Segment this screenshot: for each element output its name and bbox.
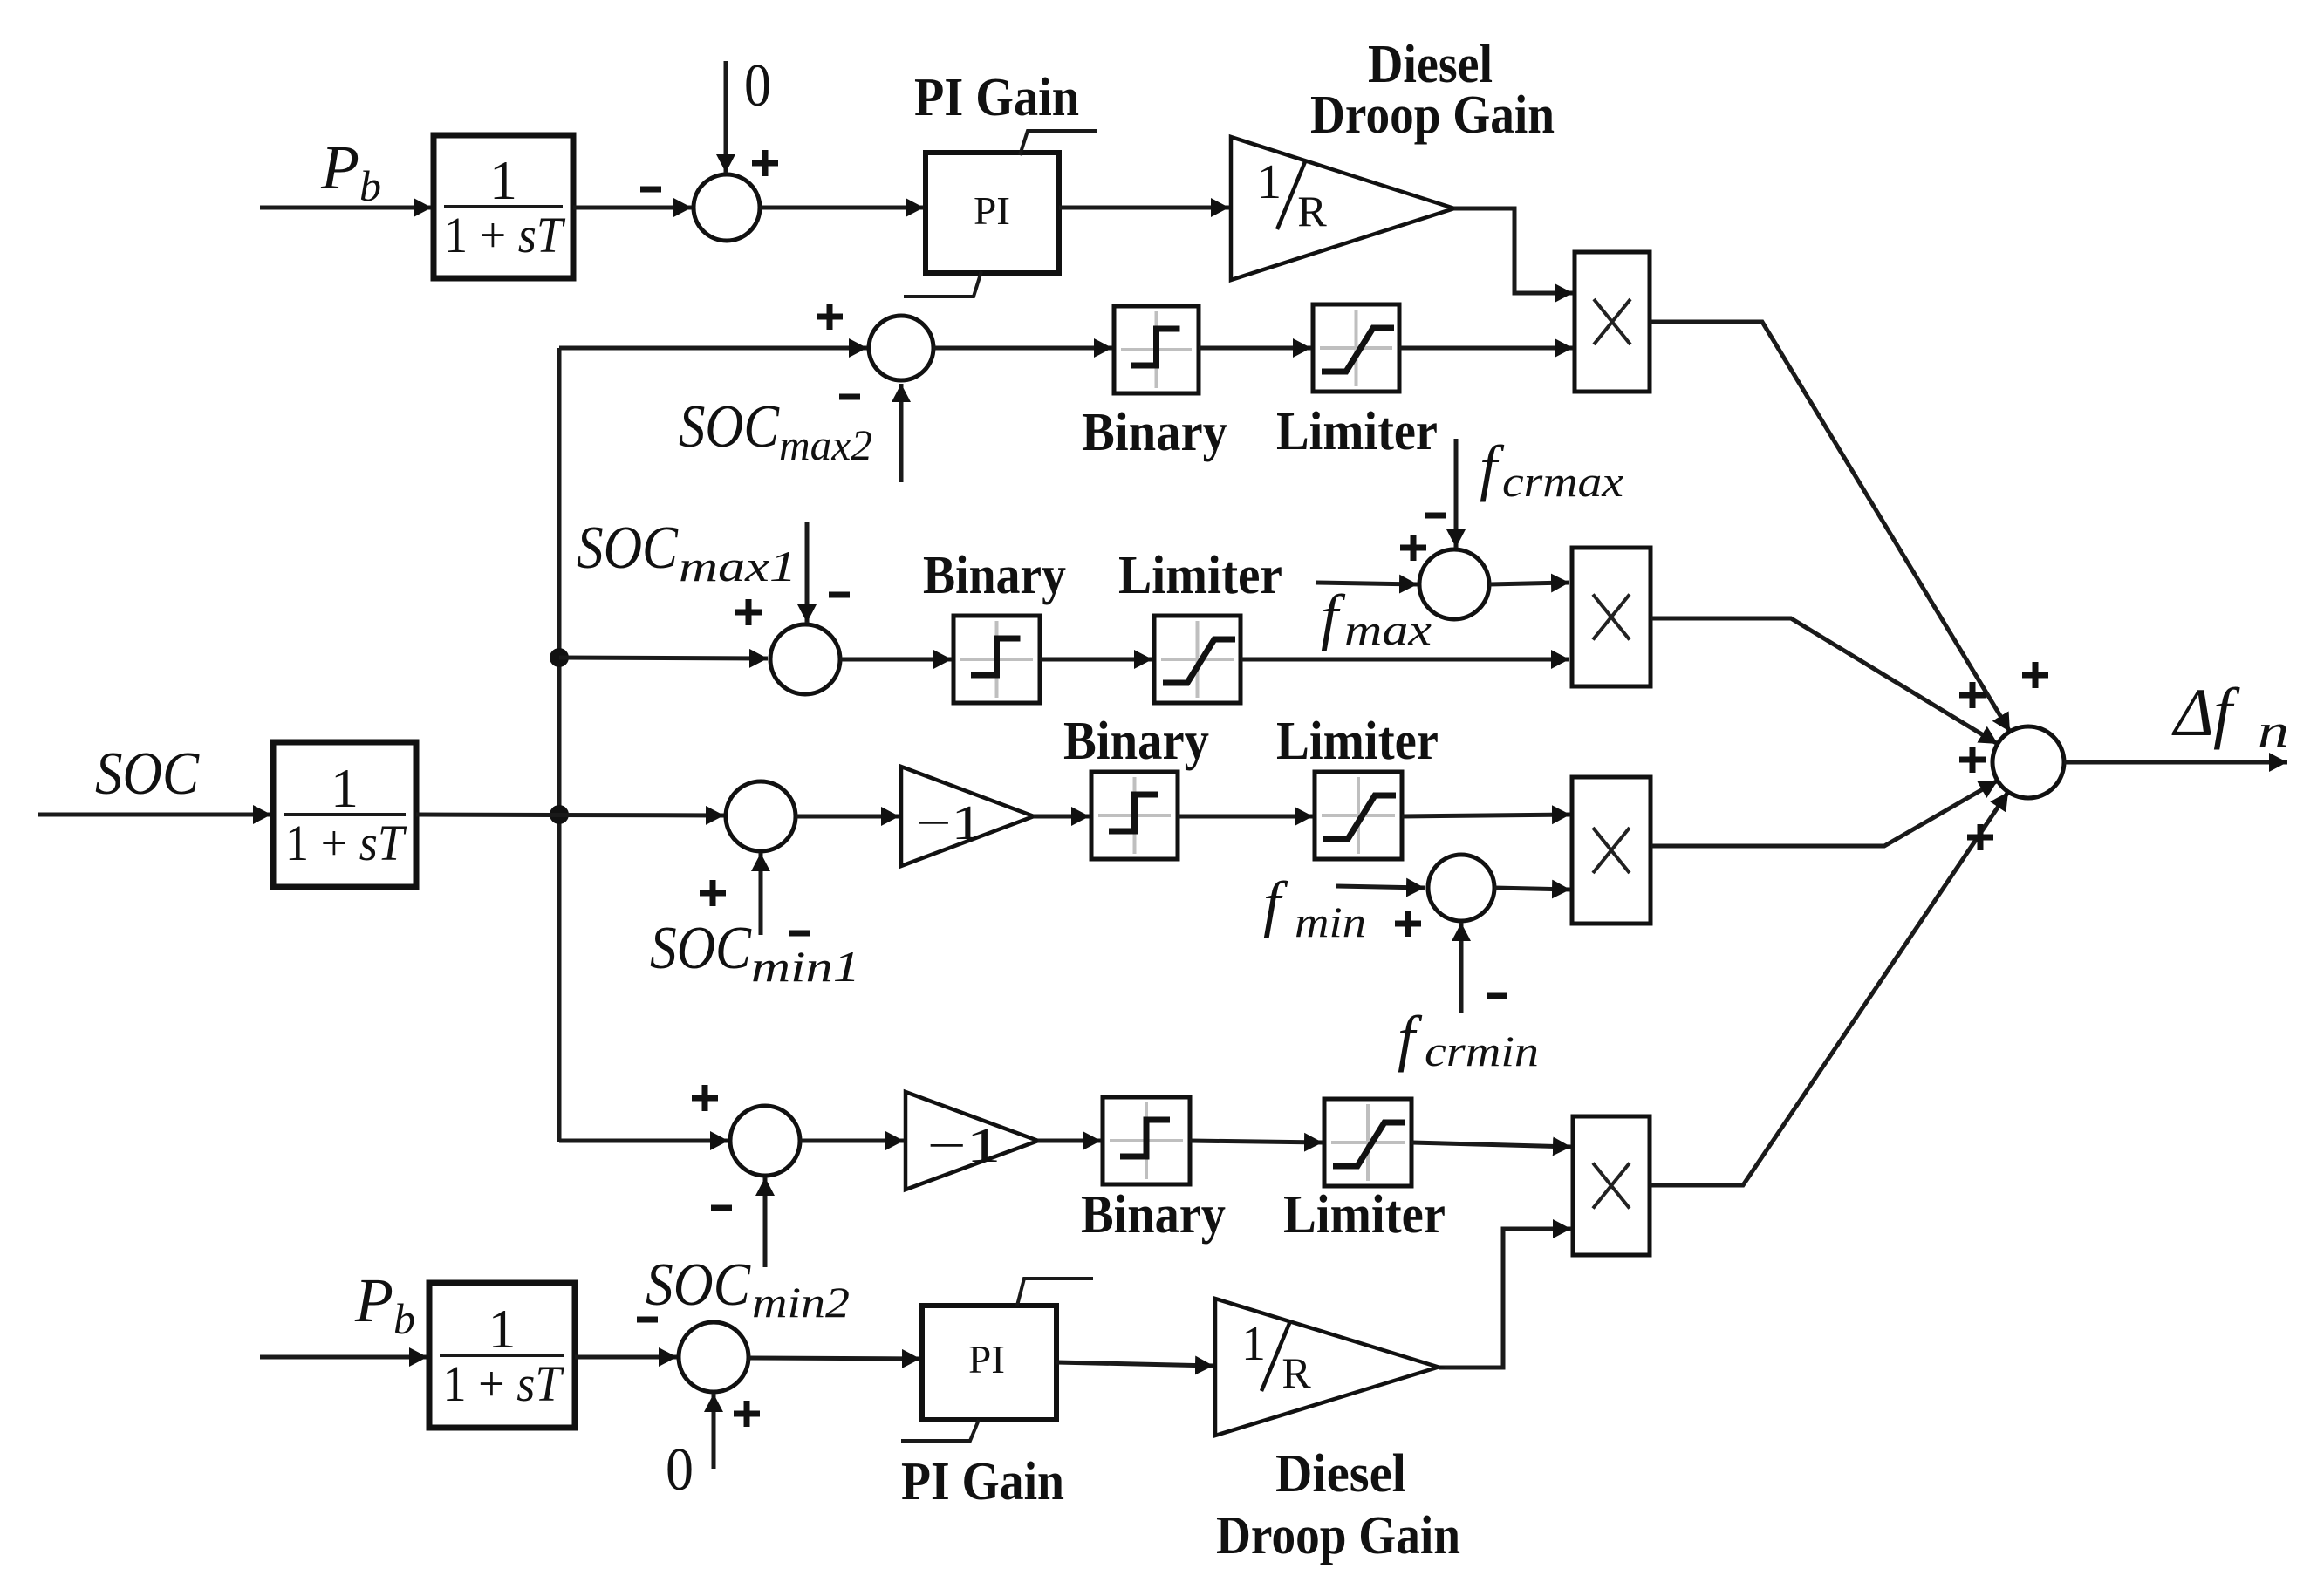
minus sign at S4 xyxy=(1425,513,1446,519)
plus sign at S3 xyxy=(735,599,762,625)
wire branch to sum S7 xyxy=(559,1139,728,1143)
limiter block row2 xyxy=(1313,304,1399,392)
minus sign at S7 xyxy=(711,1205,732,1211)
plus sign at S5 xyxy=(700,880,726,906)
svg-text:1 + sT: 1 + sT xyxy=(444,207,565,263)
multiplier X4 xyxy=(1573,1116,1650,1255)
wire to sum S1 xyxy=(573,206,692,210)
gain -1 triangle row5 xyxy=(906,1092,1038,1190)
summing junction S1 xyxy=(694,174,760,241)
wire X1 to output sum xyxy=(1650,322,2010,732)
plus sign input4 xyxy=(1967,824,1993,850)
svg-text:min: min xyxy=(1295,897,1366,946)
svg-text:Droop Gain: Droop Gain xyxy=(1216,1506,1460,1565)
plus sign at S4 xyxy=(1400,535,1426,561)
wire to sum S8 xyxy=(575,1355,677,1360)
binary block row4 xyxy=(1091,772,1178,859)
wire branch to sum S2 xyxy=(559,346,867,351)
svg-text:PI: PI xyxy=(974,188,1010,233)
svg-text:0: 0 xyxy=(744,52,771,119)
wire Limiter row5 to X4 upper xyxy=(1411,1142,1571,1147)
summing junction S6 xyxy=(1428,855,1494,921)
svg-text:Binary: Binary xyxy=(1063,712,1209,771)
svg-text:SOC: SOC xyxy=(577,515,679,582)
svg-text:SOC: SOC xyxy=(650,915,752,982)
multiplier X1 xyxy=(1575,252,1650,392)
svg-text:b: b xyxy=(359,161,381,210)
block 1/(1+sT) top xyxy=(434,135,573,278)
binary block row5 xyxy=(1103,1097,1190,1184)
svg-text:PI Gain: PI Gain xyxy=(901,1452,1064,1511)
svg-text:Limiter: Limiter xyxy=(1276,712,1439,771)
svg-text:1: 1 xyxy=(489,1298,516,1360)
svg-text:n: n xyxy=(2258,705,2289,757)
wire PI to droop gain bottom xyxy=(1056,1362,1213,1366)
minus sign at S3 xyxy=(829,592,850,598)
plus sign at S6 xyxy=(1395,911,1421,937)
wire Binary to Limiter row3 xyxy=(1040,658,1152,662)
svg-text:Limiter: Limiter xyxy=(1283,1185,1446,1245)
PI Gain tick bottom xyxy=(904,271,981,297)
wire S6 to X3 lower xyxy=(1494,888,1570,890)
limiter block row3 xyxy=(1154,616,1241,703)
gain 1/R triangle top xyxy=(1231,137,1454,280)
svg-text:1: 1 xyxy=(1241,1317,1266,1371)
svg-text:Limiter: Limiter xyxy=(1276,402,1438,461)
svg-text:PI Gain: PI Gain xyxy=(914,68,1079,127)
summing junction S7 xyxy=(730,1106,800,1176)
wire PI to droop gain xyxy=(1059,206,1229,210)
svg-text:SOC: SOC xyxy=(679,393,780,460)
binary block row2 xyxy=(1114,306,1199,393)
wire SOC block to sum S5 xyxy=(416,815,724,815)
wire fmax into S4 xyxy=(1316,583,1418,584)
svg-text:−1: −1 xyxy=(916,796,983,850)
multiplier X3 xyxy=(1572,777,1651,924)
junction dot main xyxy=(550,805,569,824)
wire fcrmax into S4 xyxy=(1454,439,1459,548)
summing junction S3 xyxy=(770,624,840,694)
wire fcrmin into S6 xyxy=(1459,923,1464,1013)
wire X3 to output sum xyxy=(1651,781,1998,846)
svg-text:max2: max2 xyxy=(779,420,872,469)
wire Binary to Limiter row4 xyxy=(1178,815,1313,819)
wire X2 to output sum xyxy=(1651,618,1998,744)
svg-text:0: 0 xyxy=(666,1436,694,1504)
svg-text:max: max xyxy=(1344,605,1432,654)
svg-text:1: 1 xyxy=(331,757,359,819)
minus sign at S8 xyxy=(637,1317,658,1323)
wire droop gain to X4 lower xyxy=(1439,1229,1571,1368)
svg-text:1 + sT: 1 + sT xyxy=(443,1355,564,1412)
wire output dfn xyxy=(2064,760,2287,765)
PI Gain tick top (bottom) xyxy=(1017,1279,1093,1306)
output summing junction S9 xyxy=(1992,726,2064,798)
plus sign at S2 xyxy=(817,304,843,330)
binary block row3 xyxy=(953,616,1040,703)
block 1/(1+sT) bottom xyxy=(429,1283,575,1428)
summing junction S4 xyxy=(1419,549,1489,619)
plus sign input2 xyxy=(1959,682,1986,708)
svg-text:Binary: Binary xyxy=(1081,1185,1226,1245)
wire S7 to -1 gain row5 xyxy=(800,1139,904,1143)
wire Limiter to X1 xyxy=(1399,346,1573,351)
svg-text:P: P xyxy=(320,133,359,202)
wire S1 to PI xyxy=(760,206,924,210)
svg-text:Droop Gain: Droop Gain xyxy=(1310,85,1555,145)
wire SOCmin1 into S5 xyxy=(759,853,763,935)
svg-text:max1: max1 xyxy=(679,542,796,590)
wire S2 to Binary xyxy=(933,346,1112,351)
wire -1 to Binary row5 xyxy=(1038,1139,1101,1143)
gain 1/R triangle bottom xyxy=(1215,1299,1439,1436)
wire droop gain to multiplier X1 xyxy=(1454,208,1573,293)
svg-text:crmin: crmin xyxy=(1425,1026,1539,1075)
minus sign at S2 xyxy=(839,394,860,400)
svg-text:−1: −1 xyxy=(927,1119,1001,1173)
PI Gain tick top xyxy=(1020,131,1097,155)
wire S3 to Binary row3 xyxy=(840,658,952,662)
svg-text:Binary: Binary xyxy=(923,546,1066,605)
minus sign at S5 xyxy=(789,931,810,937)
svg-text:SOC: SOC xyxy=(95,740,200,808)
svg-text:b: b xyxy=(393,1294,415,1343)
wire Pb input (top) xyxy=(260,206,432,210)
summing junction S5 xyxy=(726,781,796,851)
junction dot row3 xyxy=(550,648,569,667)
wire Binary to Limiter row5 xyxy=(1190,1141,1323,1142)
svg-text:P: P xyxy=(354,1265,393,1335)
svg-text:Diesel: Diesel xyxy=(1275,1444,1406,1504)
minus sign at S1 xyxy=(640,187,661,193)
wire SOCmax2 into S2 xyxy=(899,384,904,482)
svg-text:PI: PI xyxy=(968,1337,1005,1381)
svg-text:Δ: Δ xyxy=(2171,674,2214,750)
wire SOCmax1 into S3 xyxy=(805,522,810,623)
svg-text:R: R xyxy=(1297,187,1327,235)
wire Binary to Limiter row2 xyxy=(1199,346,1311,351)
plus sign at S8 xyxy=(734,1401,760,1427)
limiter block row5 xyxy=(1324,1099,1411,1186)
svg-text:SOC: SOC xyxy=(646,1252,751,1319)
svg-text:Binary: Binary xyxy=(1082,403,1227,462)
wire S8 to PI bottom xyxy=(748,1358,920,1359)
svg-text:1: 1 xyxy=(489,149,517,211)
block 1/(1+sT) middle xyxy=(273,742,416,887)
wire 0 into S1 xyxy=(724,61,728,173)
plus sign at S7 xyxy=(692,1085,718,1111)
PI Gain tick bottom (bottom) xyxy=(901,1420,979,1441)
plus sign input1 xyxy=(2022,662,2048,688)
gain -1 triangle row4 xyxy=(901,767,1034,866)
svg-text:min2: min2 xyxy=(752,1278,850,1327)
wire S4 to X2 upper xyxy=(1489,583,1569,584)
wire fmin into S6 xyxy=(1336,886,1425,888)
wire X4 to output sum xyxy=(1650,792,2008,1185)
wire Limiter row3 to X2 lower xyxy=(1241,658,1569,662)
PI block top xyxy=(926,153,1059,273)
limiter block row4 xyxy=(1315,772,1402,859)
minus sign at S6 xyxy=(1487,993,1507,999)
summing junction S8 xyxy=(679,1322,748,1392)
wire 0 into S8 xyxy=(712,1394,716,1469)
multiplier X2 xyxy=(1572,548,1651,686)
plus sign input3 xyxy=(1959,747,1986,773)
summing junction S2 xyxy=(869,316,933,380)
wire branch to sum S3 xyxy=(559,658,768,658)
svg-text:1: 1 xyxy=(1257,155,1282,209)
wire SOC input xyxy=(38,813,271,817)
wire Pb input (bottom) xyxy=(260,1355,427,1360)
wire S5 to -1 gain xyxy=(796,815,899,819)
wire Limiter row4 to X3 upper xyxy=(1402,815,1570,816)
svg-text:crmax: crmax xyxy=(1502,457,1623,506)
wire -1 to Binary row4 xyxy=(1034,815,1090,819)
branch wire vertical xyxy=(557,348,562,1142)
plus sign at S1 xyxy=(752,150,778,176)
PI block bottom xyxy=(922,1306,1056,1420)
svg-text:min1: min1 xyxy=(751,942,860,991)
svg-text:Limiter: Limiter xyxy=(1118,546,1282,605)
wire SOCmin2 into S7 xyxy=(763,1177,768,1267)
svg-text:R: R xyxy=(1282,1348,1311,1397)
svg-text:1 + sT: 1 + sT xyxy=(285,815,407,871)
